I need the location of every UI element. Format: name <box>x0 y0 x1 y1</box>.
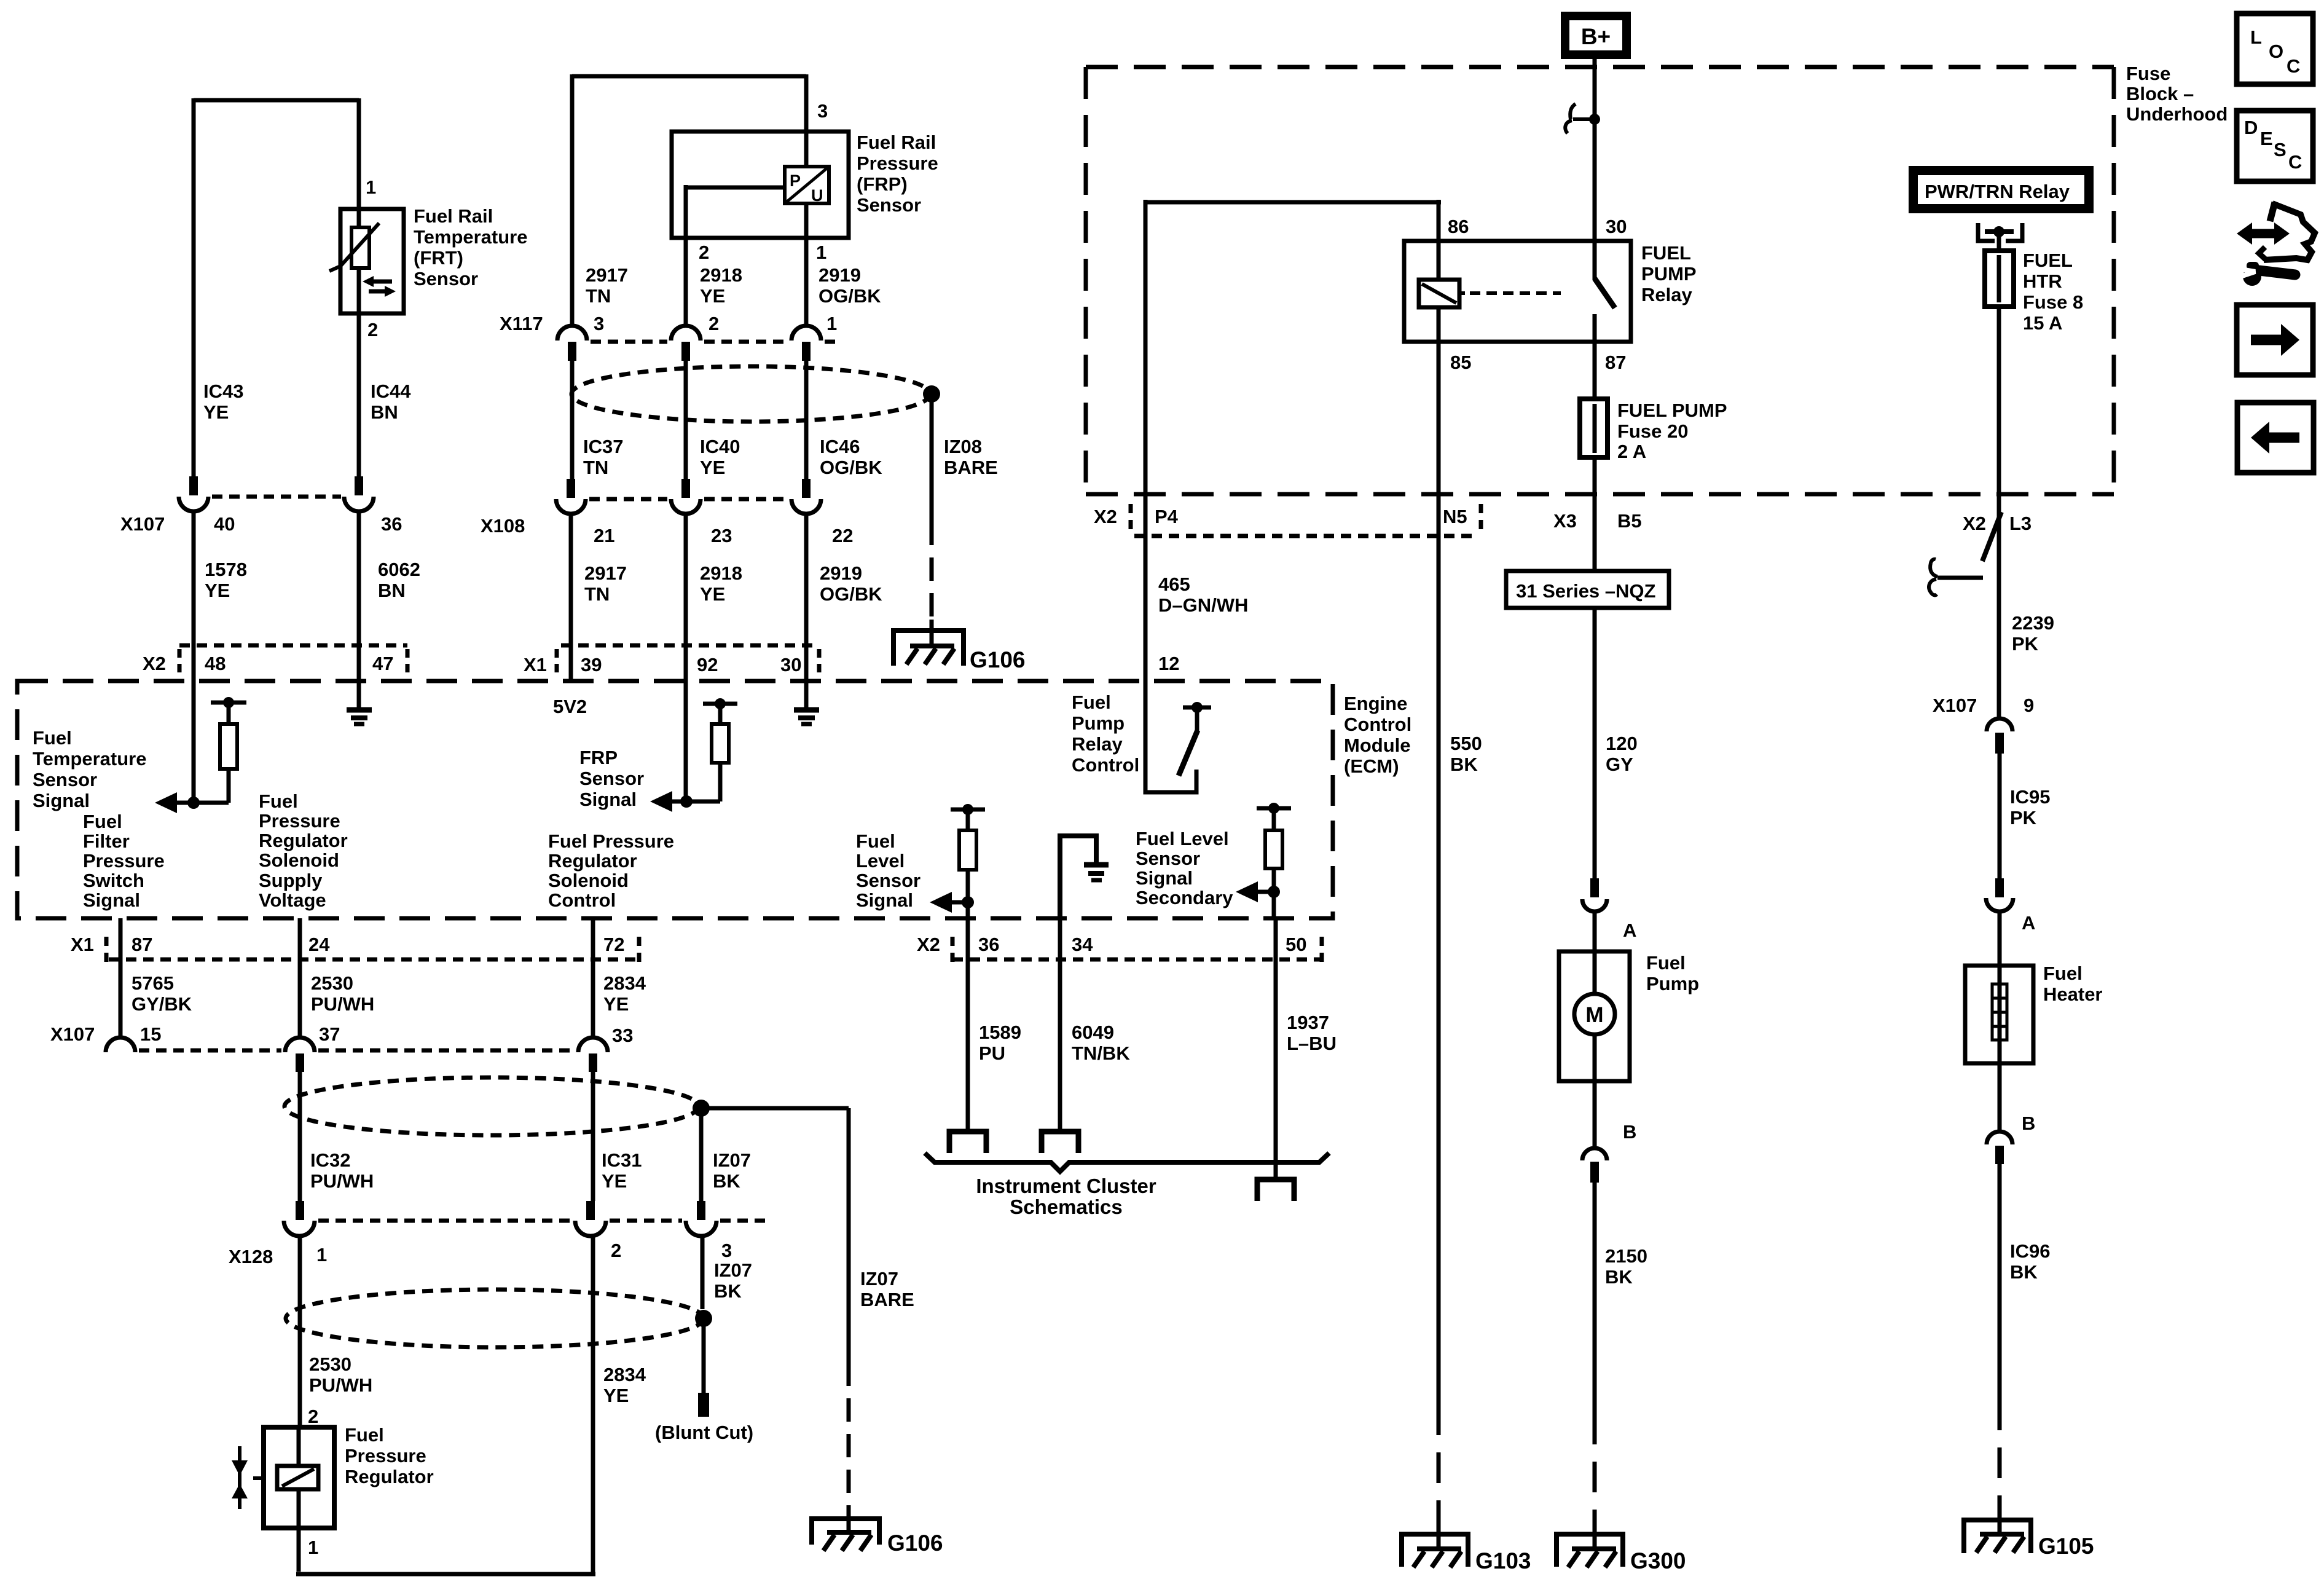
wire 2918 drop <box>684 238 688 326</box>
fuel temp signal horizontal <box>175 801 229 805</box>
svg-text:Fuel Level: Fuel Level <box>1136 828 1229 849</box>
svg-text:IC46: IC46 <box>820 436 860 457</box>
svg-text:OG/BK: OG/BK <box>819 285 881 307</box>
icon double arrow <box>2248 229 2278 238</box>
svg-text:YE: YE <box>203 401 229 423</box>
wire 2918 inside ECM / FRP signal <box>670 800 720 804</box>
svg-text:PU/WH: PU/WH <box>309 1374 372 1396</box>
svg-text:X2: X2 <box>1963 513 1986 534</box>
pull-up resistor (fuel level) <box>951 808 985 812</box>
wire relay 87 down <box>1593 342 1597 399</box>
wire IC95 PK <box>1998 754 2002 878</box>
svg-text:YE: YE <box>603 993 629 1015</box>
wire 465 D-GN/WH <box>1144 200 1148 681</box>
wire FRT pin1 drop <box>357 98 361 209</box>
svg-text:1: 1 <box>826 313 837 334</box>
connector A (fuel pump) <box>1590 878 1599 897</box>
fuel rail pressure sensor box <box>672 132 849 238</box>
svg-text:L: L <box>2250 26 2262 48</box>
svg-text:Regulator: Regulator <box>345 1466 434 1487</box>
svg-text:1: 1 <box>366 176 376 198</box>
wire B+ feed <box>1593 59 1597 280</box>
svg-text:2918: 2918 <box>700 264 742 286</box>
svg-text:48: 48 <box>205 653 226 674</box>
icon DESC box <box>2237 111 2313 181</box>
svg-text:IC32: IC32 <box>310 1149 350 1171</box>
svg-text:X107: X107 <box>1933 695 1977 716</box>
svg-text:U: U <box>811 186 823 205</box>
svg-text:Solenoid: Solenoid <box>548 870 629 891</box>
svg-text:86: 86 <box>1448 216 1469 237</box>
svg-text:PK: PK <box>2010 807 2037 829</box>
svg-text:P: P <box>790 171 801 190</box>
svg-text:2919: 2919 <box>820 562 862 584</box>
wire FRT top bus <box>194 98 359 103</box>
svg-text:X107: X107 <box>120 513 165 535</box>
svg-text:BN: BN <box>378 580 406 601</box>
twisted pair ellipse (FRP harness) <box>571 366 930 422</box>
fuel heater box <box>1998 912 2002 966</box>
svg-text:1: 1 <box>816 242 826 263</box>
svg-text:Fuel: Fuel <box>83 811 122 832</box>
svg-text:X1: X1 <box>71 934 94 955</box>
node B+ <box>1565 16 1627 55</box>
wire relay 86 bus <box>1145 200 1441 241</box>
svg-text:C: C <box>2288 151 2302 173</box>
svg-text:2834: 2834 <box>603 972 646 994</box>
svg-text:Module: Module <box>1344 734 1411 756</box>
svg-text:72: 72 <box>603 934 624 955</box>
svg-text:Schematics: Schematics <box>1010 1195 1122 1218</box>
connector X117 pin 3 <box>557 326 587 341</box>
svg-text:87: 87 <box>132 934 152 955</box>
svg-text:47: 47 <box>372 653 393 674</box>
FPR valve symbol <box>238 1446 241 1509</box>
ECM dashed box <box>17 681 1333 918</box>
svg-text:Regulator: Regulator <box>259 830 348 851</box>
shield junction dot <box>693 1100 710 1117</box>
svg-text:FUEL PUMP: FUEL PUMP <box>1617 400 1727 421</box>
wire 2919 OG/BK lower <box>804 513 809 706</box>
svg-text:PK: PK <box>2012 633 2039 655</box>
svg-text:X2: X2 <box>917 934 940 955</box>
FUEL HTR fuse 8 <box>1985 251 2014 307</box>
ground G105 <box>1964 1520 2031 1553</box>
svg-text:D: D <box>2244 117 2258 138</box>
svg-text:33: 33 <box>612 1025 633 1046</box>
connector X128 pin 1 <box>296 1201 304 1220</box>
wire 1578 YE <box>192 511 196 681</box>
svg-text:IC43: IC43 <box>203 380 243 402</box>
svg-text:X1: X1 <box>524 654 547 675</box>
icon LOC box <box>2237 14 2313 84</box>
svg-text:Secondary: Secondary <box>1136 887 1233 908</box>
relay coil wire 86/85 <box>1437 241 1441 342</box>
svg-text:50: 50 <box>1286 934 1306 955</box>
twisted pair ellipse (IC32/IC31) <box>285 1077 699 1135</box>
connector row X1 87/24/72 <box>109 958 639 962</box>
svg-text:PWR/TRN Relay: PWR/TRN Relay <box>1925 181 2070 202</box>
svg-text:30: 30 <box>780 654 801 675</box>
svg-text:2919: 2919 <box>819 264 861 286</box>
cluster terminal (6049) <box>1042 1132 1078 1153</box>
FRP internal pin1 wire <box>804 203 809 238</box>
svg-text:6062: 6062 <box>378 559 420 580</box>
svg-text:X2: X2 <box>1094 506 1117 527</box>
svg-text:OG/BK: OG/BK <box>820 583 882 605</box>
cluster terminal (1937) <box>1257 1179 1294 1201</box>
wire IZ07 BK upper <box>699 1108 704 1201</box>
shield junction dot <box>695 1310 712 1327</box>
svg-text:2917: 2917 <box>584 562 627 584</box>
ground G103 <box>1402 1534 1468 1567</box>
connector line X107 top <box>212 495 341 499</box>
wire IZ08 BARE drain <box>930 394 934 522</box>
svg-text:FUEL: FUEL <box>2023 250 2073 271</box>
wire IC96 BK <box>1998 1063 2002 1132</box>
wire IC31 YE <box>591 1072 595 1201</box>
svg-text:Sensor: Sensor <box>857 194 921 216</box>
svg-text:Level: Level <box>856 850 905 872</box>
connector line X128 <box>318 1219 768 1223</box>
svg-text:PU: PU <box>979 1042 1005 1064</box>
fuel pump motor <box>1574 994 1615 1034</box>
svg-text:HTR: HTR <box>2023 270 2062 292</box>
svg-text:G105: G105 <box>2038 1534 2094 1559</box>
svg-text:IZ07: IZ07 <box>714 1259 752 1281</box>
FRP internal pin2 wire <box>686 185 785 238</box>
31 Series -NQZ box <box>1506 571 1669 608</box>
svg-text:Relay: Relay <box>1072 733 1123 755</box>
svg-text:E: E <box>2260 128 2273 149</box>
connector X107 pin 15 <box>106 1038 135 1052</box>
svg-text:M: M <box>1585 1003 1603 1027</box>
svg-text:Control: Control <box>548 889 616 911</box>
connector line X117 <box>591 340 836 344</box>
fuel pressure regulator box <box>264 1427 334 1528</box>
svg-text:Fuel Rail: Fuel Rail <box>414 205 493 227</box>
wire to blunt cut <box>702 1318 706 1393</box>
connector row X2 48/47 <box>179 644 407 648</box>
svg-text:YE: YE <box>603 1385 629 1406</box>
svg-text:GY: GY <box>1606 754 1633 775</box>
svg-text:B+: B+ <box>1581 24 1611 49</box>
svg-text:(ECM): (ECM) <box>1344 755 1399 777</box>
instrument cluster brace <box>925 1153 1329 1171</box>
svg-text:BK: BK <box>2010 1261 2038 1283</box>
svg-text:3: 3 <box>817 100 828 122</box>
svg-text:2: 2 <box>709 313 719 334</box>
svg-text:Sensor: Sensor <box>579 768 644 789</box>
wire IC31/2834 lower <box>591 1236 595 1574</box>
svg-text:Signal: Signal <box>33 790 90 811</box>
svg-text:Sensor: Sensor <box>414 268 478 289</box>
svg-text:Fuel: Fuel <box>259 790 298 812</box>
connector X108 pin 22 <box>802 479 811 498</box>
svg-text:IC37: IC37 <box>583 436 623 457</box>
thermistor element <box>351 227 369 268</box>
wire IZ07 BK lower <box>701 1236 705 1309</box>
connector X128 pin 2 <box>586 1201 595 1220</box>
relay switch blade <box>1595 278 1615 308</box>
svg-text:Fuse 8: Fuse 8 <box>2023 291 2083 313</box>
svg-text:YE: YE <box>700 583 725 605</box>
wire 2917 upper drop <box>570 74 575 326</box>
svg-text:2918: 2918 <box>700 562 742 584</box>
P/U transducer box <box>785 167 829 203</box>
svg-text:5765: 5765 <box>132 972 174 994</box>
svg-text:L3: L3 <box>2009 513 2032 534</box>
internal ground (2919) <box>804 681 809 707</box>
fuel temp signal arrow <box>155 792 177 813</box>
svg-text:Block –: Block – <box>2126 83 2194 104</box>
wire FRP pin3 drop <box>804 74 809 167</box>
svg-text:Signal: Signal <box>1136 867 1193 889</box>
wire IC43 upper segment <box>192 98 196 476</box>
svg-text:Signal: Signal <box>579 789 637 810</box>
svg-text:Regulator: Regulator <box>548 850 637 872</box>
connector X117 pin 2 <box>671 326 701 341</box>
svg-text:2: 2 <box>308 1406 318 1427</box>
wire 6049 TN/BK <box>1058 918 1062 1132</box>
svg-text:TN: TN <box>583 457 608 478</box>
wire IC40 <box>684 361 688 479</box>
FRP signal arrow <box>650 791 672 812</box>
svg-text:Fuel Pressure: Fuel Pressure <box>548 830 674 852</box>
pull-up resistor (fuel temp) <box>211 701 246 705</box>
svg-text:2 A: 2 A <box>1617 441 1646 462</box>
svg-text:Fuse 20: Fuse 20 <box>1617 420 1688 442</box>
fuel pump relay box <box>1404 241 1631 342</box>
svg-text:(FRT): (FRT) <box>414 247 463 269</box>
pull-up resistor (fuel level secondary) <box>1257 806 1291 811</box>
svg-text:92: 92 <box>697 654 718 675</box>
svg-text:550: 550 <box>1450 733 1482 754</box>
wire 2919 drop <box>804 238 809 326</box>
svg-text:X2: X2 <box>143 653 166 674</box>
wire FRT pin2 to X107 <box>357 313 361 476</box>
svg-text:36: 36 <box>381 513 402 535</box>
svg-text:X107: X107 <box>50 1023 95 1045</box>
svg-text:G103: G103 <box>1475 1548 1531 1573</box>
icon forward arrow box <box>2237 305 2313 375</box>
svg-text:(FRP): (FRP) <box>857 173 908 195</box>
svg-text:24: 24 <box>308 934 330 955</box>
relay coil <box>1419 280 1459 307</box>
wire 2834 YE <box>591 918 595 1038</box>
svg-text:85: 85 <box>1450 352 1471 373</box>
svg-text:1: 1 <box>308 1537 318 1558</box>
svg-text:OG/BK: OG/BK <box>820 457 882 478</box>
connector row X2 36/34/50 <box>952 958 1322 962</box>
svg-text:2: 2 <box>699 242 709 263</box>
wire through FRT sensor <box>357 209 361 313</box>
svg-text:X128: X128 <box>229 1246 273 1267</box>
fuel level signal arrow <box>949 900 968 905</box>
wire 2918 YE lower <box>684 513 688 801</box>
wire 5765 GY/BK <box>119 918 123 1038</box>
svg-text:BARE: BARE <box>860 1289 914 1310</box>
svg-text:Filter: Filter <box>83 830 130 852</box>
svg-text:X108: X108 <box>481 515 525 537</box>
svg-text:X117: X117 <box>500 313 543 334</box>
svg-text:IC40: IC40 <box>700 436 740 457</box>
connector X128 pin 3 <box>697 1201 705 1220</box>
fusible link symbol <box>1589 114 1600 125</box>
connector X107 pin 40 <box>189 476 198 495</box>
svg-text:1: 1 <box>316 1244 327 1266</box>
svg-text:Fuel Rail: Fuel Rail <box>857 132 936 153</box>
svg-text:15: 15 <box>140 1023 161 1045</box>
connector X107 pin 37 <box>285 1038 315 1052</box>
svg-text:IZ08: IZ08 <box>944 436 982 457</box>
svg-text:40: 40 <box>214 513 235 535</box>
svg-text:A: A <box>1623 919 1636 941</box>
wire to fuse 8 <box>1997 232 2001 251</box>
svg-text:39: 39 <box>581 654 602 675</box>
svg-text:2: 2 <box>611 1240 621 1261</box>
wire 1937 L-BU <box>1274 918 1278 1180</box>
svg-text:BK: BK <box>1605 1266 1633 1288</box>
svg-text:G300: G300 <box>1630 1548 1686 1573</box>
internal ground bracket (6049) <box>1060 836 1096 918</box>
svg-text:B5: B5 <box>1617 510 1642 532</box>
svg-text:G106: G106 <box>970 647 1026 672</box>
wire 120 GY <box>1593 457 1597 878</box>
svg-text:2150: 2150 <box>1605 1245 1647 1267</box>
wire IC46 <box>804 361 809 479</box>
svg-text:2: 2 <box>367 319 378 341</box>
svg-text:B: B <box>2022 1112 2035 1134</box>
svg-text:1578: 1578 <box>205 559 247 580</box>
svg-text:L–BU: L–BU <box>1287 1033 1337 1054</box>
svg-text:TN: TN <box>584 583 610 605</box>
relay 87 stub <box>1593 314 1597 342</box>
svg-text:Fuel: Fuel <box>33 727 72 749</box>
svg-text:15 A: 15 A <box>2023 312 2062 334</box>
svg-text:X3: X3 <box>1553 510 1577 532</box>
svg-text:Pressure: Pressure <box>345 1445 426 1467</box>
wire IC43 inside ECM <box>192 681 196 803</box>
connector X107 pin 33 <box>578 1038 608 1052</box>
svg-text:Fuse: Fuse <box>2126 63 2170 84</box>
svg-text:YE: YE <box>602 1170 627 1192</box>
wire 2530 PU/WH lower <box>298 1236 302 1427</box>
svg-text:6049: 6049 <box>1072 1022 1114 1043</box>
svg-text:31 Series –NQZ: 31 Series –NQZ <box>1516 580 1656 602</box>
svg-text:Supply: Supply <box>259 870 323 891</box>
svg-text:TN/BK: TN/BK <box>1072 1042 1130 1064</box>
wire 465 inside ECM <box>1145 681 1196 792</box>
svg-text:Signal: Signal <box>83 889 140 911</box>
ground G106 (IZ07 drain, lower) <box>812 1519 879 1545</box>
ECM driver switch blade <box>1179 730 1198 776</box>
svg-text:30: 30 <box>1606 216 1627 237</box>
relay output terminal <box>1978 223 2022 241</box>
cluster terminal (1589) <box>949 1132 986 1153</box>
svg-text:2530: 2530 <box>309 1353 351 1375</box>
svg-text:BK: BK <box>714 1280 742 1302</box>
junction dot 2918 <box>680 795 693 808</box>
fuel rail temperature sensor B47 box <box>340 209 404 313</box>
pull-up resistor (FRP) <box>703 702 737 706</box>
svg-text:3: 3 <box>594 313 604 334</box>
wire FPR to 2834 <box>296 1528 595 1574</box>
connector X107 pin 36 <box>355 476 363 495</box>
svg-text:Control: Control <box>1072 754 1139 776</box>
svg-text:GY/BK: GY/BK <box>132 993 192 1015</box>
internal ground (IC44/6062) <box>347 707 372 713</box>
svg-text:Fuel: Fuel <box>1072 691 1111 713</box>
svg-text:FRP: FRP <box>579 747 618 768</box>
svg-text:PUMP: PUMP <box>1641 263 1697 285</box>
svg-text:B: B <box>1623 1121 1636 1143</box>
svg-text:YE: YE <box>205 580 230 601</box>
wire 2917 TN lower <box>569 513 573 681</box>
svg-text:37: 37 <box>319 1023 340 1045</box>
PWR/TRN switch blade <box>1982 512 2001 561</box>
wire IC32 PU/WH <box>298 1072 302 1201</box>
twisted pair ellipse (2530/2834) <box>286 1290 704 1347</box>
svg-text:Temperature: Temperature <box>33 748 147 770</box>
svg-text:S: S <box>2274 139 2287 160</box>
fuel pump box <box>1593 912 1597 951</box>
svg-text:BN: BN <box>371 401 398 423</box>
svg-text:120: 120 <box>1606 733 1638 754</box>
icon back arrow box <box>2237 403 2314 473</box>
svg-text:2239: 2239 <box>2012 612 2054 634</box>
svg-text:A: A <box>2022 912 2035 934</box>
svg-text:G106: G106 <box>887 1530 943 1556</box>
svg-text:Fuel: Fuel <box>1646 952 1686 974</box>
svg-text:C: C <box>2287 55 2300 77</box>
svg-text:IC44: IC44 <box>371 380 411 402</box>
svg-text:YE: YE <box>700 285 725 307</box>
svg-text:Pump: Pump <box>1646 973 1699 994</box>
heater element <box>1992 984 2007 1040</box>
connector line X107 lower <box>139 1049 575 1053</box>
svg-text:PU/WH: PU/WH <box>310 1170 374 1192</box>
svg-text:TN: TN <box>586 285 611 307</box>
svg-text:N5: N5 <box>1443 506 1467 527</box>
svg-text:Instrument Cluster: Instrument Cluster <box>976 1175 1156 1197</box>
wire IC37 <box>570 361 575 479</box>
svg-text:Signal: Signal <box>856 889 913 911</box>
connector row X1 39/92/30 <box>561 644 819 648</box>
svg-text:34: 34 <box>1072 934 1093 955</box>
svg-text:Engine: Engine <box>1344 693 1407 714</box>
svg-text:12: 12 <box>1158 653 1179 674</box>
svg-text:(Blunt Cut): (Blunt Cut) <box>655 1422 753 1443</box>
svg-text:Fuel: Fuel <box>345 1424 384 1446</box>
svg-text:IC95: IC95 <box>2010 786 2050 808</box>
svg-text:1589: 1589 <box>979 1022 1021 1043</box>
svg-text:22: 22 <box>832 525 853 546</box>
svg-text:Solenoid: Solenoid <box>259 849 339 871</box>
svg-text:O: O <box>2269 41 2283 62</box>
wire 550 (relay 85) <box>1437 342 1441 1404</box>
svg-text:9: 9 <box>2024 695 2034 716</box>
wire IZ07 BARE drop <box>847 1108 851 1363</box>
svg-text:Sensor: Sensor <box>1136 848 1200 869</box>
wire through FPR <box>297 1427 301 1528</box>
svg-text:IC96: IC96 <box>2010 1240 2050 1262</box>
svg-text:Pressure: Pressure <box>259 810 340 832</box>
svg-text:YE: YE <box>700 457 725 478</box>
svg-text:IC31: IC31 <box>602 1149 642 1171</box>
svg-text:87: 87 <box>1605 352 1626 373</box>
svg-text:2917: 2917 <box>586 264 628 286</box>
